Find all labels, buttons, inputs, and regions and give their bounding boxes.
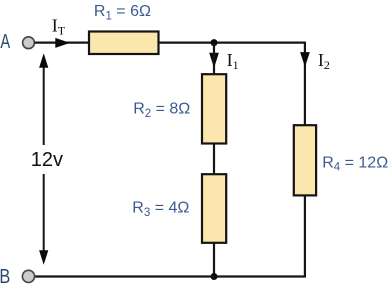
svg-text:B: B xyxy=(0,266,10,288)
wire R3 to bottom junction xyxy=(213,243,215,277)
resistor R3 xyxy=(202,174,226,243)
current arrow IT xyxy=(55,38,70,48)
junction node top xyxy=(211,39,218,46)
resistor R1 xyxy=(89,32,159,55)
terminal B xyxy=(22,270,34,282)
svg-text:R3 = 4Ω: R3 = 4Ω xyxy=(132,200,189,219)
terminal A xyxy=(23,37,35,49)
current arrow I1 xyxy=(209,53,219,68)
current arrow I2 xyxy=(300,52,310,67)
wire A to R1 xyxy=(35,41,90,43)
svg-text:R4 = 12Ω: R4 = 12Ω xyxy=(322,155,388,174)
voltage arrow upper head xyxy=(39,53,48,67)
wire junction to R2 xyxy=(213,43,215,75)
svg-text:12v: 12v xyxy=(31,149,63,171)
wire junction to top-right corner and down xyxy=(214,43,305,126)
svg-text:R2 = 8Ω: R2 = 8Ω xyxy=(133,101,190,120)
wire R4 to bottom-right corner xyxy=(214,195,305,276)
svg-text:A: A xyxy=(0,31,10,53)
resistor R2 xyxy=(202,74,226,143)
junction node bottom xyxy=(211,273,218,280)
resistor R4 xyxy=(294,125,316,195)
wire R2 to R3 xyxy=(213,144,215,175)
voltage arrow upper line xyxy=(43,66,45,145)
svg-text:R1 = 6Ω: R1 = 6Ω xyxy=(94,3,151,22)
wire bottom junction to B xyxy=(35,275,215,277)
voltage arrow lower head xyxy=(39,250,48,264)
voltage arrow lower line xyxy=(43,174,45,252)
wire R1 to junction xyxy=(159,41,215,43)
